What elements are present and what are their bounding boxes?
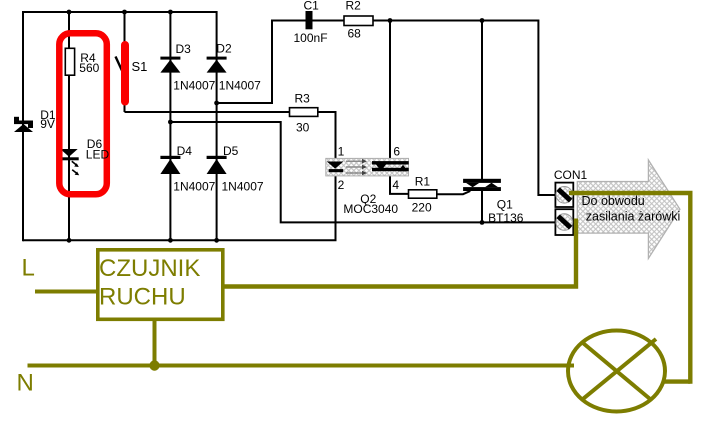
wire N rail	[28, 364, 575, 368]
svg-text:N: N	[17, 370, 34, 397]
LED inside Q2	[327, 162, 344, 173]
LED D6	[60, 149, 79, 175]
wire D2/D5 column	[216, 11, 218, 240]
svg-text:C1: C1	[304, 0, 320, 13]
wire top-left rail	[23, 11, 217, 13]
svg-text:S1: S1	[132, 59, 148, 74]
diode D3	[160, 57, 180, 73]
wire D2 bottom node to C1	[217, 21, 306, 104]
optocoupler U-body Q2 MOC3040	[326, 158, 409, 176]
lamp cross line 2	[582, 339, 656, 400]
svg-text:R2: R2	[346, 0, 362, 13]
connector CON1 terminal 2	[555, 209, 573, 235]
wire CON1 terminal 1 to riser	[569, 191, 693, 195]
svg-text:Do obwodu: Do obwodu	[582, 194, 645, 208]
annotation arrow to bulb circuit	[577, 160, 680, 258]
node Q1 bottom rail	[480, 220, 485, 225]
svg-text:Q1: Q1	[497, 198, 513, 212]
wire S1 column	[124, 12, 126, 112]
node top rail Q1	[480, 18, 485, 23]
svg-text:D5: D5	[223, 144, 239, 158]
diode D2	[207, 57, 227, 73]
wire D3 bottom node to CON1 bottom	[170, 122, 555, 222]
wire R2 to CON1 top	[373, 21, 555, 196]
wire riser up to CON1 top	[688, 193, 692, 384]
svg-text:6: 6	[393, 145, 400, 159]
svg-text:RUCHU: RUCHU	[99, 284, 186, 311]
wire MOC pin 4 to R1	[390, 171, 409, 194]
svg-text:4: 4	[392, 178, 399, 192]
connector CON1 terminal 1	[555, 183, 573, 207]
node top rail S1	[122, 10, 127, 15]
sensor box CZUJNIK RUCHU	[98, 250, 223, 319]
node D3-D4 junction	[168, 120, 173, 125]
wire lamp to vertical riser	[663, 379, 690, 383]
switch S1 lever	[116, 57, 125, 77]
wire R1 to Q1 gate	[437, 191, 471, 194]
highlight red mark over S1	[121, 45, 129, 102]
node D2-D5 junction	[214, 101, 219, 106]
resistor R4	[65, 48, 74, 75]
svg-text:CON1: CON1	[554, 168, 588, 182]
diode D5	[207, 156, 227, 174]
node R2 right / MOC pin6	[388, 18, 393, 23]
svg-text:LED: LED	[86, 148, 110, 162]
svg-text:R3: R3	[295, 92, 311, 106]
node top rail D3	[168, 10, 173, 15]
wire D3/D4 column	[169, 12, 171, 240]
svg-text:D3: D3	[176, 42, 192, 56]
node N junction	[149, 360, 159, 370]
resistor R2	[344, 16, 373, 26]
svg-text:220: 220	[412, 201, 432, 215]
svg-text:D2: D2	[216, 42, 232, 56]
wire S1 bottom to R3 to MOC pin 1	[125, 112, 336, 159]
resistor R1	[409, 190, 437, 198]
triac inside Q2	[372, 161, 409, 171]
triac Q1 BT136	[463, 179, 501, 191]
wire D1 column	[22, 11, 24, 241]
svg-text:zasilania żarówki: zasilania żarówki	[586, 210, 680, 224]
svg-text:D4: D4	[177, 144, 193, 158]
node bottom rail R4/D6	[67, 238, 72, 243]
wire C1 to R2	[312, 20, 344, 22]
wire sensor to CON1 terminal 2	[224, 219, 576, 287]
svg-text:1N4007: 1N4007	[219, 79, 261, 93]
svg-text:L: L	[22, 255, 35, 282]
wire L to sensor	[35, 290, 96, 294]
wire sensor to N rail	[153, 320, 157, 366]
highlight red box around R4/D6	[59, 33, 107, 194]
svg-text:1: 1	[338, 145, 345, 159]
svg-text:R1: R1	[415, 175, 431, 189]
resistor R3	[290, 108, 318, 117]
svg-text:560: 560	[79, 61, 99, 75]
wire R4/D6 column	[68, 12, 70, 240]
wire top rail to Q1 top	[481, 21, 483, 180]
lamp bulb	[568, 331, 665, 412]
node top rail R4	[67, 10, 72, 15]
svg-text:2: 2	[338, 178, 345, 192]
svg-text:9V: 9V	[40, 117, 55, 131]
node bottom rail D4	[168, 238, 173, 243]
svg-text:1N4007: 1N4007	[222, 180, 264, 194]
svg-text:CZUJNIK: CZUJNIK	[99, 255, 200, 282]
svg-text:BT136: BT136	[488, 211, 524, 225]
svg-text:1N4007: 1N4007	[173, 180, 215, 194]
svg-text:MOC3040: MOC3040	[343, 202, 398, 216]
svg-text:30: 30	[296, 121, 310, 135]
diode D4	[160, 156, 180, 174]
capacitor C1	[306, 11, 313, 29]
wire Q1 bottom	[481, 190, 483, 222]
zener diode D1	[14, 117, 33, 132]
svg-text:1N4007: 1N4007	[173, 79, 215, 93]
optical coupling arrows	[346, 161, 363, 173]
node bottom rail D5	[214, 238, 219, 243]
lamp cross line 1	[582, 342, 651, 399]
svg-text:100nF: 100nF	[294, 31, 328, 45]
wire bottom rail to MOC pin 2	[23, 176, 336, 241]
svg-text:68: 68	[348, 27, 362, 41]
wire top rail to MOC pin 6	[389, 21, 391, 162]
